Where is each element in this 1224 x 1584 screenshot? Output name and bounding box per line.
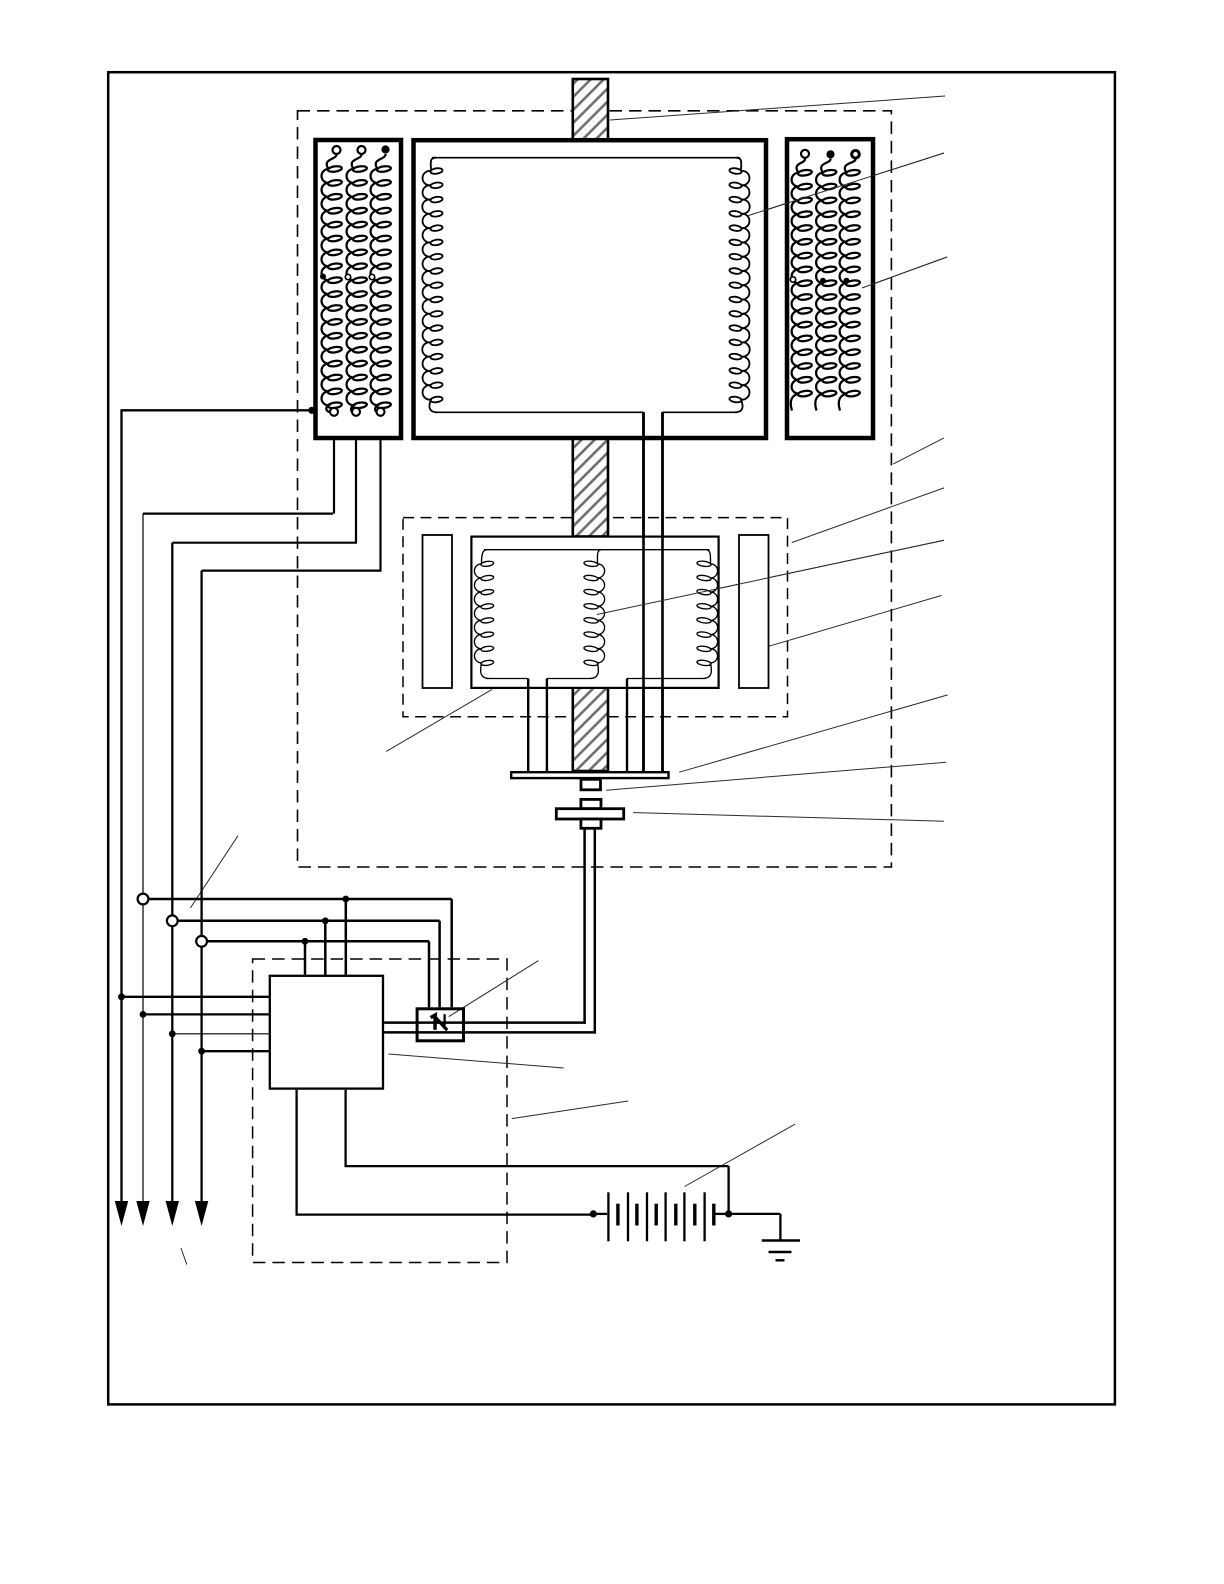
- main coil top conductor: [432, 157, 740, 159]
- leader to N filter box: [449, 961, 539, 1017]
- leader to output arrows: [181, 1248, 187, 1265]
- bus wire C: [171, 543, 173, 1202]
- junction dot bus B / control in 2: [140, 1011, 147, 1018]
- leader to terminal bus: [190, 836, 238, 908]
- wire: control to battery minus across: [296, 1213, 594, 1215]
- pickup bottom conductor c: [627, 678, 705, 680]
- wire: main coil lead 2 down to platform: [661, 412, 664, 771]
- wire: left box common to bus A: [122, 409, 314, 411]
- coil L1 in left box: [322, 154, 337, 412]
- coil R2 mid tap dot: [820, 278, 826, 284]
- wire: control to battery plus across: [345, 1165, 729, 1167]
- junction dot bus C / control in 3: [169, 1030, 176, 1037]
- wire: battery plus drop: [727, 1166, 729, 1214]
- terminal T2 (open circle): [167, 915, 178, 926]
- pickup right coil: [703, 550, 718, 679]
- coil L1 mid tap dot: [320, 274, 326, 280]
- wire: coil L3 lead down: [379, 416, 381, 571]
- pickup coils top conductor: [484, 549, 710, 551]
- dashed enclosure: pickup transformer unit: [403, 518, 788, 717]
- stub block under platform: [581, 779, 601, 790]
- junction dot bus D / control in 4: [198, 1048, 205, 1055]
- shaft segment 1 (hatched): [573, 79, 608, 140]
- main coil right winding: [735, 158, 750, 413]
- wire: control to battery plus down: [344, 1090, 346, 1166]
- coil R2 in right box: [815, 159, 830, 411]
- N filter box: [417, 1009, 463, 1041]
- dashed enclosure: generator unit: [298, 111, 892, 867]
- coil R1 in right box: [791, 159, 805, 411]
- wire: control input 1: [122, 996, 269, 998]
- wire: T1 junction down to control box: [345, 899, 348, 975]
- coil L2 mid tap circle: [345, 274, 350, 279]
- junction dot T3/control: [302, 938, 309, 945]
- wire: coil L2 lead across: [172, 542, 357, 544]
- leader to stub block: [606, 762, 946, 790]
- wire: control to battery minus down: [295, 1090, 297, 1215]
- wire: drop into N filter right: [450, 899, 453, 1007]
- leader to generator enclosure: [893, 438, 944, 464]
- cross fitting: [581, 799, 601, 808]
- shaft segment 2 (hatched): [573, 438, 608, 537]
- pickup bottom conductor a: [486, 678, 528, 680]
- leader to platform bar: [679, 695, 948, 772]
- wire: control to probe lower: [384, 1031, 596, 1034]
- main generator box: [414, 140, 767, 438]
- leader to right side plate: [769, 596, 941, 647]
- coil L3 bottom terminal: [377, 408, 385, 416]
- coil R3 mid tap dot: [844, 278, 850, 284]
- ground symbol: [762, 1241, 800, 1261]
- left coil box (3-phase winding bank L): [316, 140, 402, 438]
- leader to cross fitting: [633, 813, 944, 822]
- bus wire B (thin): [142, 514, 144, 1202]
- pickup transformer frame box: [471, 537, 718, 688]
- coil L2 bottom terminal: [352, 408, 360, 416]
- leader to main coil winding (overdraw): [747, 153, 944, 216]
- wire: terminal T1 to filter drop: [148, 898, 452, 901]
- wire: battery to ground: [729, 1213, 781, 1215]
- coil L3 in left box: [371, 154, 386, 412]
- control box: [270, 976, 383, 1089]
- junction dot T1/control: [342, 896, 349, 903]
- wire: coil L1 lead down: [333, 416, 335, 514]
- battery B1: [593, 1192, 728, 1241]
- leader to shaft: [610, 96, 945, 120]
- right coil box (winding bank R): [787, 139, 873, 438]
- leader to battery: [685, 1124, 795, 1186]
- output arrowhead on bus x=121.5: [115, 1201, 128, 1226]
- wire: coil L1 lead across: [143, 512, 333, 514]
- wire: T3 junction down to control box: [304, 941, 307, 974]
- wire: T2 junction down to control box: [324, 921, 327, 975]
- battery terminal dot right: [725, 1210, 732, 1217]
- wire: control input 4: [202, 1050, 269, 1052]
- leader to right coil bank: [862, 257, 947, 288]
- wire: control input 2: [143, 1013, 269, 1015]
- letter N marking: [431, 1014, 448, 1030]
- pickup center coil: [590, 550, 605, 679]
- junction dot T2/control: [322, 917, 329, 924]
- main coil left winding: [422, 158, 437, 413]
- wire: pickup lead 2 to platform: [546, 679, 548, 772]
- coil L2 in left box: [347, 154, 362, 412]
- pickup bottom conductor b: [547, 678, 592, 680]
- wire: control to probe upper: [384, 1021, 586, 1024]
- battery terminal dot left: [590, 1210, 597, 1217]
- dashed enclosure: control unit: [253, 959, 507, 1263]
- coil R1 mid tap circle: [790, 277, 795, 282]
- wire: main coil lead 2 (over pickup): [661, 412, 664, 771]
- wire: terminal T3 to filter drop: [207, 940, 429, 943]
- coil L1 top terminal: [333, 146, 341, 154]
- leader to pickup core frame: [386, 689, 492, 751]
- junction dot on left box edge: [308, 407, 315, 414]
- output arrowhead on bus x=143: [136, 1201, 149, 1226]
- probe rod wire right: [594, 828, 597, 1033]
- coil R3 top terminal (thick ring): [852, 151, 860, 159]
- terminal T1 (open circle): [138, 894, 149, 905]
- wire: main coil lead 1 down to platform: [642, 412, 645, 771]
- coil R1 top terminal: [801, 150, 809, 158]
- wire: ground stem: [779, 1214, 781, 1241]
- wire: coil L2 lead down: [355, 416, 357, 543]
- probe rod wire left: [583, 828, 586, 1023]
- left side plate of pickup unit: [423, 535, 453, 688]
- terminal T3 (open circle): [196, 936, 207, 947]
- output arrowhead on bus x=201.6: [195, 1201, 208, 1226]
- wire: coil L3 lead across: [202, 569, 382, 571]
- leader to right coil bank (overdraw): [862, 257, 947, 288]
- bus wire D: [200, 571, 202, 1202]
- coil L1 bottom terminal: [330, 408, 338, 416]
- wire: terminal T2 to filter drop: [178, 920, 440, 923]
- main coil bottom conductor right: [663, 411, 738, 413]
- coil R3 in right box: [839, 159, 856, 411]
- leader to pickup center coil: [597, 540, 944, 614]
- platform bar: [511, 772, 668, 778]
- figure border frame: [108, 72, 1115, 1404]
- leader to pickup center coil (overdraw): [597, 540, 944, 614]
- wire: pickup lead 3 to platform: [626, 679, 628, 772]
- leader to main coil winding: [747, 153, 944, 216]
- pickup left coil: [474, 550, 489, 679]
- shaft segment 3 (hatched): [573, 688, 608, 772]
- coil L3 mid tap circle: [369, 274, 374, 279]
- coil L2 top terminal: [358, 146, 366, 154]
- wire: control input 3 (thin): [172, 1033, 268, 1035]
- wire: main coil lead 1 (over pickup): [642, 412, 645, 771]
- junction dot bus A / control in 1: [118, 993, 125, 1000]
- coil R2 top terminal (filled): [826, 150, 834, 158]
- leader to control box: [389, 1054, 564, 1068]
- right side plate of pickup unit: [739, 535, 769, 688]
- wire: drop into N filter middle: [438, 921, 441, 1008]
- coil L3 top terminal (filled): [381, 145, 389, 153]
- output arrowhead on bus x=172.3: [166, 1201, 179, 1226]
- leader to control enclosure: [512, 1101, 629, 1119]
- bus wire A: [120, 409, 122, 1202]
- wire: pickup lead 1 to platform: [527, 679, 529, 772]
- leader to pickup enclosure: [792, 488, 944, 543]
- wire: drop into N filter left: [428, 941, 431, 1007]
- main coil bottom conductor left: [435, 411, 644, 413]
